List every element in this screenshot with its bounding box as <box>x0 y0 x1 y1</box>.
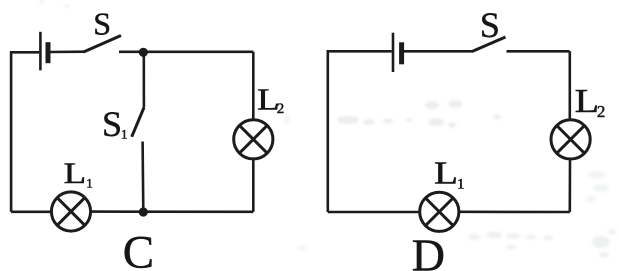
svg-text:2: 2 <box>277 101 285 117</box>
svg-text:1: 1 <box>86 176 93 191</box>
svg-text:L: L <box>575 83 600 120</box>
svg-text:1: 1 <box>457 176 465 192</box>
svg-text:S: S <box>102 104 122 144</box>
svg-text:D: D <box>412 229 445 271</box>
svg-text:C: C <box>123 226 154 271</box>
svg-text:L: L <box>434 155 458 191</box>
svg-text:S: S <box>480 5 500 45</box>
svg-text:2: 2 <box>597 102 606 121</box>
svg-text:S: S <box>93 5 111 41</box>
svg-text:L: L <box>64 157 87 190</box>
svg-text:1: 1 <box>121 127 128 142</box>
